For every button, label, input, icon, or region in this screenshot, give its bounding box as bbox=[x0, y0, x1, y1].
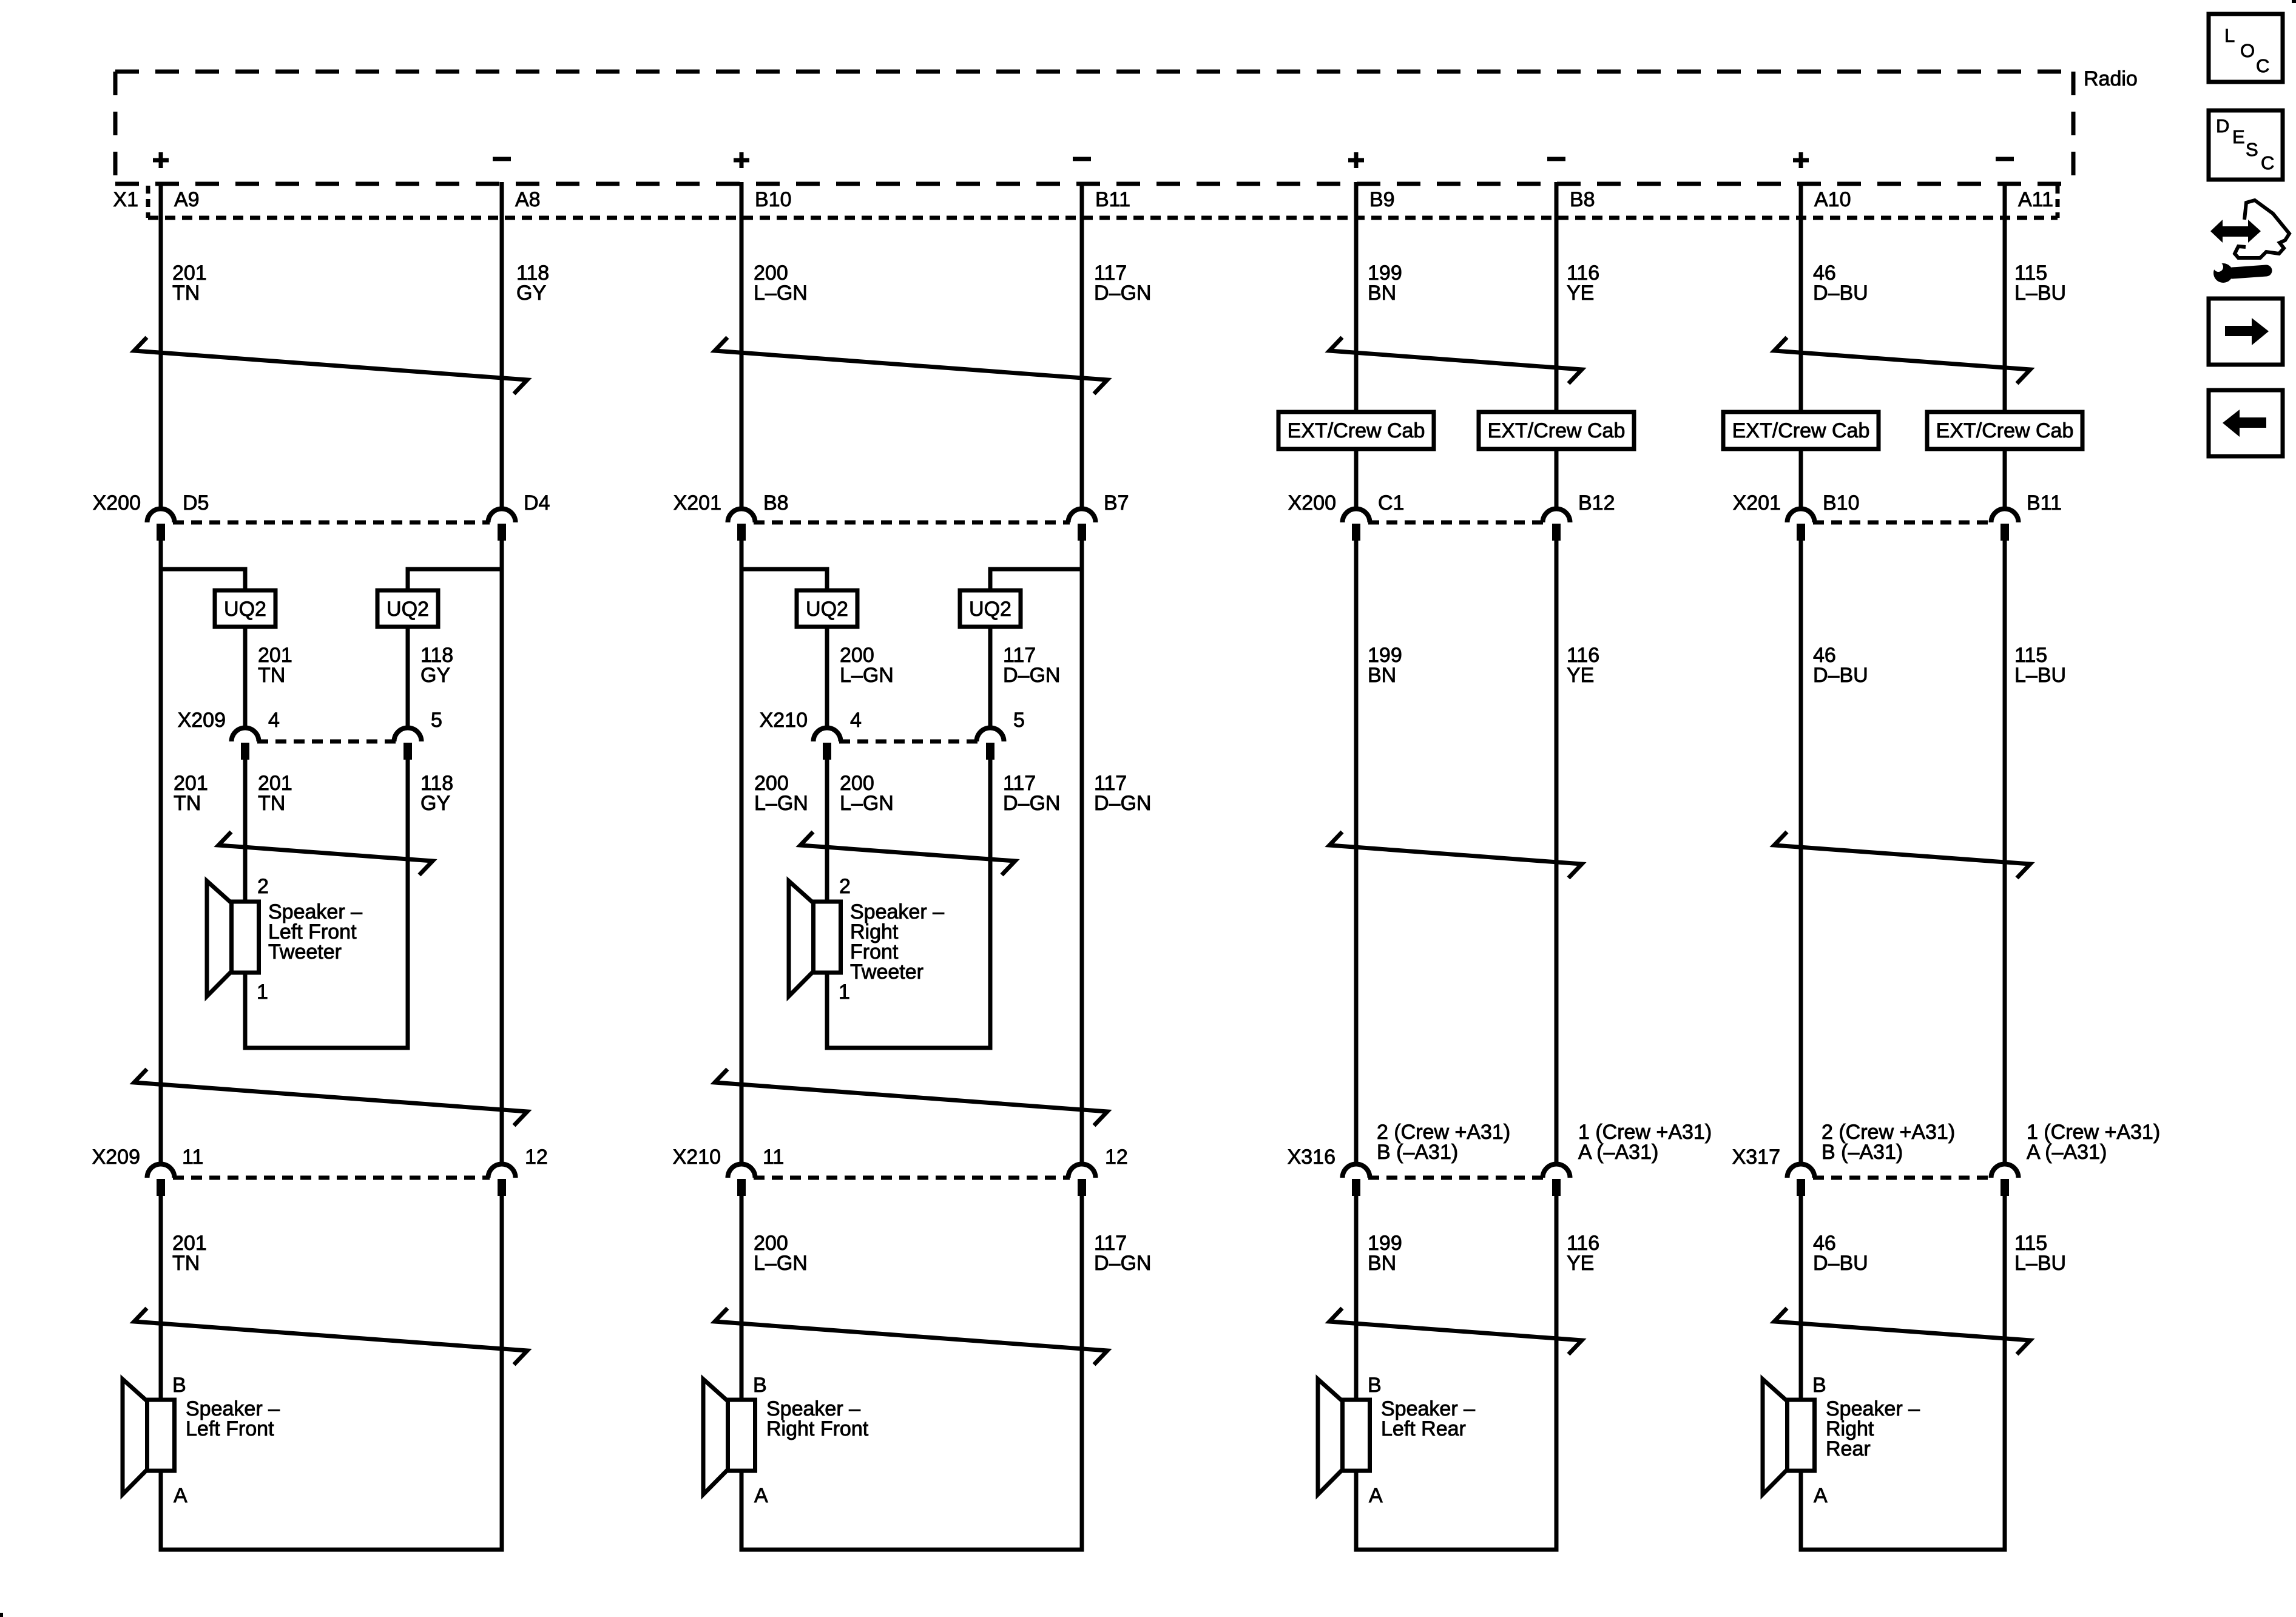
svg-text:EXT/Crew Cab: EXT/Crew Cab bbox=[1732, 419, 1870, 442]
svg-text:UQ2: UQ2 bbox=[806, 598, 848, 621]
svg-text:Tweeter: Tweeter bbox=[850, 960, 923, 984]
svg-text:GY: GY bbox=[420, 792, 450, 815]
svg-text:11: 11 bbox=[182, 1146, 203, 1169]
svg-text:A8: A8 bbox=[515, 188, 541, 211]
svg-text:X210: X210 bbox=[760, 709, 808, 732]
terminal at x=827 bbox=[498, 1179, 506, 1196]
svg-text:Tweeter: Tweeter bbox=[268, 940, 342, 964]
wire break symbol row1 group 4 bbox=[1774, 337, 2030, 383]
back arrow box bbox=[2209, 390, 2283, 456]
svg-text:TN: TN bbox=[258, 664, 285, 687]
connector socket at x=827 bbox=[488, 509, 516, 523]
svg-text:1: 1 bbox=[839, 981, 850, 1004]
forward arrow box bbox=[2209, 299, 2283, 365]
svg-text:Left Rear: Left Rear bbox=[1381, 1417, 1466, 1440]
terminal at x=1222 bbox=[737, 524, 746, 541]
minus sign pin (wire 2) bbox=[493, 157, 511, 161]
svg-text:4: 4 bbox=[268, 709, 280, 732]
wire 7 segment below EXT box bbox=[1799, 449, 1803, 508]
svg-text:X210: X210 bbox=[673, 1146, 721, 1169]
svg-text:4: 4 bbox=[850, 709, 862, 732]
svg-text:X1: X1 bbox=[113, 188, 138, 211]
branch wire below UQ2 (-) bbox=[406, 627, 410, 727]
wire break symbol row1 group 3 bbox=[1329, 337, 1582, 383]
speaker Right Rear bbox=[1788, 1400, 1815, 1471]
break symbol row2 group 3 bbox=[1329, 832, 1582, 878]
speaker Left Front bbox=[147, 1400, 175, 1471]
connector socket at x=1632 bbox=[977, 728, 1004, 742]
svg-text:BN: BN bbox=[1368, 1252, 1396, 1275]
branch wire from wire 4 to UQ2 bbox=[990, 569, 1082, 590]
connector socket at x=2565 bbox=[1543, 1164, 1570, 1178]
EXT/Crew Cab option box (wire 5) bbox=[1278, 412, 1434, 449]
plus sign pin (wire 3) bbox=[734, 152, 749, 168]
svg-text:D–GN: D–GN bbox=[1003, 664, 1060, 687]
speaker Left Rear bbox=[1343, 1400, 1370, 1471]
branch wire from wire 2 to UQ2 bbox=[408, 569, 502, 590]
page corner marks bbox=[2292, 0, 2296, 3]
wire tweeter loop bbox=[827, 758, 990, 1048]
svg-text:B11: B11 bbox=[1095, 188, 1130, 211]
LOC navigation box bbox=[2209, 14, 2283, 82]
branch wire below UQ2 (-) bbox=[988, 627, 993, 727]
connector X317 lower row (dashed) bbox=[1813, 1176, 1993, 1180]
terminal at x=1783 bbox=[1078, 1179, 1086, 1196]
wire 2 lower segment bbox=[500, 1196, 504, 1548]
svg-text:E: E bbox=[2232, 126, 2245, 147]
wire 1 lower segment bbox=[159, 1196, 163, 1400]
wire break symbol row1 group 1 bbox=[134, 337, 527, 394]
svg-text:X316: X316 bbox=[1288, 1146, 1335, 1169]
svg-text:YE: YE bbox=[1567, 1252, 1594, 1275]
wire 8 lower segment bbox=[2003, 1196, 2007, 1548]
svg-text:EXT/Crew Cab: EXT/Crew Cab bbox=[1936, 419, 2074, 442]
connector socket at x=265 bbox=[147, 1164, 175, 1178]
svg-text:A: A bbox=[754, 1484, 768, 1507]
connector X210 lower row (dashed) bbox=[754, 1176, 1070, 1180]
connector socket at x=827 bbox=[488, 1164, 516, 1178]
connector socket at x=1783 bbox=[1069, 1164, 1096, 1178]
wire 5 top segment (199 BN) bbox=[1354, 182, 1359, 412]
svg-text:B12: B12 bbox=[1578, 491, 1615, 515]
svg-text:L–BU: L–BU bbox=[2014, 664, 2066, 687]
wire 4 top segment (117 D–GN) bbox=[1080, 182, 1084, 508]
connector X1 row (dashed) bbox=[148, 186, 2058, 218]
hand/tool icon bbox=[2210, 200, 2289, 283]
connector X200 row (dashed) group 3 bbox=[1368, 521, 1544, 525]
connector socket at x=1222 bbox=[728, 509, 755, 523]
speaker tweeter group 2 bbox=[814, 902, 841, 973]
svg-text:A (–A31): A (–A31) bbox=[2027, 1141, 2107, 1164]
minus sign pin (wire 8) bbox=[1996, 157, 2014, 161]
svg-text:D: D bbox=[2216, 115, 2229, 137]
connector socket at x=672 bbox=[394, 728, 422, 742]
branch wire below UQ2 (+) bbox=[825, 627, 829, 727]
branch wire below pin5 connector bbox=[988, 760, 993, 1048]
terminal at x=2968 bbox=[1797, 1179, 1805, 1196]
svg-text:Rear: Rear bbox=[1826, 1437, 1871, 1460]
wire 7 middle segment bbox=[1799, 541, 1803, 1163]
svg-text:O: O bbox=[2240, 40, 2255, 61]
svg-text:L–GN: L–GN bbox=[754, 792, 808, 815]
minus sign pin (wire 6) bbox=[1547, 157, 1565, 161]
svg-text:2: 2 bbox=[839, 875, 851, 898]
svg-text:X201: X201 bbox=[1733, 491, 1781, 515]
svg-text:D–GN: D–GN bbox=[1094, 1252, 1151, 1275]
terminal at x=2565 bbox=[1552, 524, 1561, 541]
connector socket at x=265 bbox=[147, 509, 175, 523]
svg-text:A (–A31): A (–A31) bbox=[1578, 1141, 1658, 1164]
svg-text:A9: A9 bbox=[174, 188, 200, 211]
terminal at x=2565 bbox=[1552, 1179, 1561, 1196]
svg-text:D–GN: D–GN bbox=[1094, 792, 1151, 815]
svg-text:D5: D5 bbox=[183, 491, 209, 515]
option box UQ2 (branch +) bbox=[215, 590, 275, 627]
connector socket at x=1783 bbox=[1069, 509, 1096, 523]
wire 1 top segment (201 TN) bbox=[159, 182, 163, 508]
wire 5 middle segment bbox=[1354, 541, 1359, 1163]
terminal at x=1783 bbox=[1078, 524, 1086, 541]
wire 8 top segment (115 L–BU) bbox=[2003, 182, 2007, 412]
svg-text:A: A bbox=[174, 1484, 187, 1507]
option box UQ2 (branch -) bbox=[377, 590, 438, 627]
svg-text:D–GN: D–GN bbox=[1094, 282, 1151, 305]
option box UQ2 (branch -) bbox=[960, 590, 1021, 627]
svg-text:TN: TN bbox=[258, 792, 285, 815]
svg-text:BN: BN bbox=[1368, 664, 1396, 687]
svg-text:X209: X209 bbox=[92, 1146, 140, 1169]
svg-text:B (–A31): B (–A31) bbox=[1822, 1141, 1903, 1164]
connector X210 pins 4/5 row (dashed) bbox=[839, 740, 978, 744]
svg-text:X317: X317 bbox=[1732, 1146, 1780, 1169]
plus sign pin (wire 7) bbox=[1793, 152, 1809, 168]
branch wire below UQ2 (+) bbox=[243, 627, 248, 727]
terminal at x=3304 bbox=[2001, 1179, 2009, 1196]
svg-text:GY: GY bbox=[516, 282, 546, 305]
svg-text:C1: C1 bbox=[1378, 491, 1404, 515]
svg-text:Left Front: Left Front bbox=[186, 1417, 274, 1440]
terminal at x=3304 bbox=[2001, 524, 2009, 541]
DESC navigation box bbox=[2209, 110, 2283, 180]
branch wire below pin4 connector bbox=[825, 760, 829, 902]
break symbol row4 group 3 bbox=[1329, 1308, 1582, 1354]
speaker Right Front bbox=[728, 1400, 755, 1471]
terminal at x=827 bbox=[498, 524, 506, 541]
svg-text:C: C bbox=[2256, 55, 2269, 76]
svg-text:C: C bbox=[2261, 152, 2274, 174]
wire 6 top segment (116 YE) bbox=[1555, 182, 1559, 412]
terminal at x=2968 bbox=[1797, 524, 1805, 541]
svg-text:UQ2: UQ2 bbox=[224, 598, 266, 621]
svg-text:B: B bbox=[1812, 1374, 1826, 1397]
wire 3 middle segment bbox=[740, 541, 744, 1163]
terminal at x=2235 bbox=[1352, 524, 1360, 541]
svg-text:B8: B8 bbox=[763, 491, 789, 515]
wire 1 middle segment bbox=[159, 541, 163, 1163]
terminal at x=404 bbox=[241, 743, 249, 760]
svg-text:B11: B11 bbox=[2027, 491, 2062, 515]
svg-text:B10: B10 bbox=[755, 188, 792, 211]
connector X201 row (dashed) group 4 bbox=[1813, 521, 1993, 525]
svg-text:D–GN: D–GN bbox=[1003, 792, 1060, 815]
branch wire from wire 1 to UQ2 bbox=[161, 569, 245, 590]
svg-text:YE: YE bbox=[1567, 282, 1594, 305]
svg-text:B10: B10 bbox=[1823, 491, 1860, 515]
break symbol row4 group 4 bbox=[1774, 1308, 2030, 1354]
svg-text:5: 5 bbox=[431, 709, 442, 732]
connector socket at x=1222 bbox=[728, 1164, 755, 1178]
svg-text:B: B bbox=[1368, 1374, 1382, 1397]
wire 3 lower segment bbox=[740, 1196, 744, 1400]
svg-text:B9: B9 bbox=[1369, 188, 1395, 211]
connector socket at x=1363 bbox=[814, 728, 841, 742]
wire 2 middle segment bbox=[500, 541, 504, 1163]
terminal at x=1632 bbox=[986, 743, 994, 760]
terminal at x=672 bbox=[403, 743, 412, 760]
wire 4 lower segment bbox=[1080, 1196, 1084, 1548]
svg-text:11: 11 bbox=[763, 1146, 784, 1169]
svg-text:1: 1 bbox=[257, 981, 268, 1004]
svg-text:UQ2: UQ2 bbox=[969, 598, 1011, 621]
connector X209 pins 4/5 row (dashed) bbox=[257, 740, 396, 744]
break symbol row2 group 4 bbox=[1774, 832, 2030, 878]
plus sign pin (wire 5) bbox=[1348, 152, 1364, 168]
svg-text:X201: X201 bbox=[674, 491, 721, 515]
svg-text:EXT/Crew Cab: EXT/Crew Cab bbox=[1488, 419, 1626, 442]
connector socket at x=2968 bbox=[1788, 1164, 1815, 1178]
wire 6 middle segment bbox=[1555, 541, 1559, 1163]
svg-text:B (–A31): B (–A31) bbox=[1377, 1141, 1458, 1164]
plus sign pin (wire 1) bbox=[153, 152, 169, 168]
svg-text:UQ2: UQ2 bbox=[387, 598, 429, 621]
svg-text:D–BU: D–BU bbox=[1813, 282, 1868, 305]
svg-text:L: L bbox=[2224, 25, 2235, 46]
connector socket at x=404 bbox=[232, 728, 259, 742]
svg-text:L–GN: L–GN bbox=[840, 664, 894, 687]
svg-text:TN: TN bbox=[174, 792, 201, 815]
wire 6 segment below EXT box bbox=[1555, 449, 1559, 508]
break symbol across branches group 1 bbox=[218, 832, 433, 875]
speaker tweeter group 1 bbox=[232, 902, 259, 973]
wire 7 top segment (46 D–BU) bbox=[1799, 182, 1803, 412]
wire tweeter loop bbox=[245, 758, 408, 1048]
branch wire from wire 3 to UQ2 bbox=[741, 569, 827, 590]
svg-text:L–GN: L–GN bbox=[840, 792, 894, 815]
terminal at x=265 bbox=[157, 524, 165, 541]
svg-text:B7: B7 bbox=[1104, 491, 1129, 515]
svg-text:X200: X200 bbox=[1288, 491, 1336, 515]
wire return loop to - wire bbox=[741, 1471, 1082, 1550]
wire 3 top segment (200 L–GN) bbox=[740, 182, 744, 508]
wire 8 middle segment bbox=[2003, 541, 2007, 1163]
svg-text:TN: TN bbox=[172, 282, 200, 305]
wire return loop to - wire bbox=[161, 1471, 502, 1550]
svg-text:L–GN: L–GN bbox=[754, 282, 808, 305]
svg-text:L–GN: L–GN bbox=[754, 1252, 808, 1275]
break symbol row3 group 2 bbox=[715, 1069, 1107, 1126]
connector X316 lower row (dashed) bbox=[1368, 1176, 1544, 1180]
connector socket at x=3304 bbox=[1991, 509, 2019, 523]
EXT/Crew Cab option box (wire 8) bbox=[1927, 412, 2082, 449]
EXT/Crew Cab option box (wire 6) bbox=[1479, 412, 1634, 449]
terminal at x=265 bbox=[157, 1179, 165, 1196]
wire 2 top segment (118 GY) bbox=[500, 182, 504, 508]
break symbol row4 group 2 bbox=[715, 1308, 1107, 1365]
svg-text:A10: A10 bbox=[1814, 188, 1851, 211]
connector socket at x=2235 bbox=[1343, 509, 1370, 523]
svg-text:TN: TN bbox=[172, 1252, 200, 1275]
connector socket at x=2968 bbox=[1788, 509, 1815, 523]
wire 4 middle segment bbox=[1080, 541, 1084, 1163]
svg-text:X200: X200 bbox=[93, 491, 141, 515]
svg-text:YE: YE bbox=[1567, 664, 1594, 687]
EXT/Crew Cab option box (wire 7) bbox=[1723, 412, 1879, 449]
svg-text:12: 12 bbox=[1105, 1146, 1128, 1169]
wire 5 lower segment bbox=[1354, 1196, 1359, 1400]
wire break symbol row1 group 2 bbox=[715, 337, 1107, 394]
wire return loop to - wire bbox=[1801, 1471, 2005, 1550]
svg-text:EXT/Crew Cab: EXT/Crew Cab bbox=[1288, 419, 1425, 442]
svg-text:X209: X209 bbox=[178, 709, 226, 732]
terminal at x=2235 bbox=[1352, 1179, 1360, 1196]
break symbol row3 group 1 bbox=[134, 1069, 527, 1126]
wire 5 segment below EXT box bbox=[1354, 449, 1359, 508]
svg-text:L–BU: L–BU bbox=[2014, 282, 2066, 305]
svg-text:5: 5 bbox=[1013, 709, 1025, 732]
svg-text:12: 12 bbox=[525, 1146, 548, 1169]
svg-text:2: 2 bbox=[257, 875, 269, 898]
connector socket at x=2565 bbox=[1543, 509, 1570, 523]
svg-text:B: B bbox=[172, 1374, 186, 1397]
svg-text:D–BU: D–BU bbox=[1813, 1252, 1868, 1275]
svg-text:A11: A11 bbox=[2018, 188, 2053, 211]
svg-text:D–BU: D–BU bbox=[1813, 664, 1868, 687]
svg-text:GY: GY bbox=[420, 664, 450, 687]
break symbol across branches group 2 bbox=[800, 832, 1015, 875]
minus sign pin (wire 4) bbox=[1073, 157, 1091, 161]
svg-text:S: S bbox=[2246, 139, 2258, 160]
connector socket at x=2235 bbox=[1343, 1164, 1370, 1178]
svg-text:Radio: Radio bbox=[2084, 67, 2138, 90]
option box UQ2 (branch +) bbox=[797, 590, 857, 627]
connector X201 row (dashed) group 2 bbox=[754, 521, 1070, 525]
svg-text:BN: BN bbox=[1368, 282, 1396, 305]
wire return loop to - wire bbox=[1356, 1471, 1556, 1550]
wire 8 segment below EXT box bbox=[2003, 449, 2007, 508]
svg-text:A: A bbox=[1369, 1484, 1383, 1507]
svg-text:A: A bbox=[1814, 1484, 1828, 1507]
wire 6 lower segment bbox=[1555, 1196, 1559, 1548]
break symbol row4 group 1 bbox=[134, 1308, 527, 1365]
svg-text:D4: D4 bbox=[524, 491, 550, 515]
svg-text:B8: B8 bbox=[1570, 188, 1595, 211]
svg-text:L–BU: L–BU bbox=[2014, 1252, 2066, 1275]
branch wire below pin5 connector bbox=[406, 760, 410, 1048]
terminal at x=1363 bbox=[823, 743, 831, 760]
svg-text:B: B bbox=[753, 1374, 767, 1397]
connector socket at x=3304 bbox=[1991, 1164, 2019, 1178]
branch wire below pin4 connector bbox=[243, 760, 248, 902]
terminal at x=1222 bbox=[737, 1179, 746, 1196]
connector X200 row (dashed) group 1 bbox=[173, 521, 490, 525]
connector X209 lower row (dashed) bbox=[173, 1176, 490, 1180]
svg-text:Right Front: Right Front bbox=[766, 1417, 869, 1440]
wire 7 lower segment bbox=[1799, 1196, 1803, 1400]
radio (dashed box) bbox=[115, 72, 2073, 184]
